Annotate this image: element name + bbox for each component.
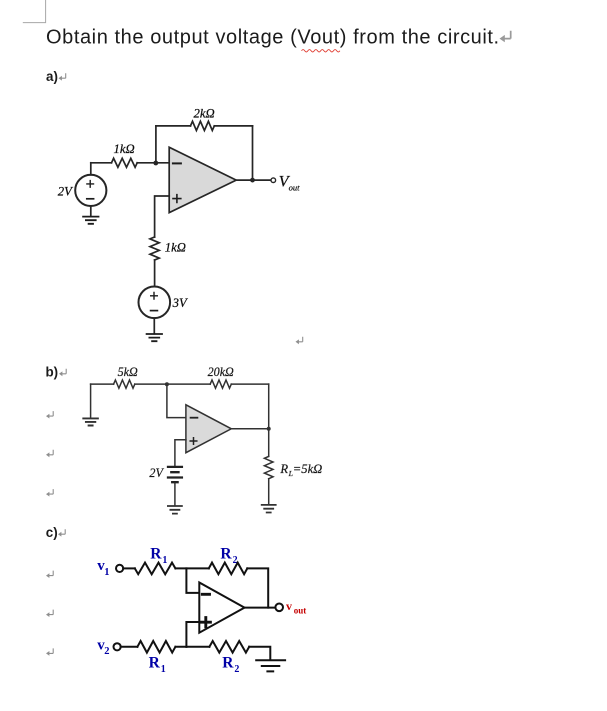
resistor 20k zigzag [210, 380, 231, 388]
svg-text:1: 1 [162, 555, 167, 566]
svg-text:2: 2 [104, 646, 109, 657]
source V2 3V circle [139, 287, 171, 319]
terminal vout open circle [275, 604, 283, 612]
paragraph mark after title [504, 31, 511, 39]
svg-text:2kΩ: 2kΩ [194, 107, 215, 121]
resistor R2 1k vertical zigzag [150, 237, 159, 260]
svg-text:R: R [220, 545, 232, 562]
svg-text:v: v [286, 599, 292, 613]
wire: 3V to ground [153, 318, 155, 334]
op-amp plus sign bold [201, 618, 210, 627]
terminal: output open circle [271, 178, 276, 183]
wire: RL to ground [268, 479, 270, 505]
svg-text:b): b) [46, 364, 59, 379]
wire: output [245, 607, 276, 609]
wire: R1 to R2 [175, 567, 208, 569]
resistor R1 1k zigzag [112, 158, 138, 167]
wire: top rail [91, 383, 269, 385]
wire: R2b to ground stub [249, 647, 270, 660]
svg-text:1kΩ: 1kΩ [114, 142, 135, 156]
op-amp plus sign [190, 438, 197, 445]
wire: noninverting to battery [175, 440, 186, 466]
wire: noninverting down to v2 rail [186, 622, 199, 647]
wire: source to R1 [91, 162, 112, 164]
wire: v1 to R1 [123, 567, 135, 569]
svg-text:2V: 2V [58, 185, 73, 199]
svg-text:20kΩ: 20kΩ [208, 365, 234, 379]
op-amp minus sign [191, 417, 198, 419]
svg-text:c): c) [46, 525, 58, 540]
ground c [256, 660, 285, 671]
svg-text:R: R [149, 654, 161, 671]
op-amp U2 triangle [186, 405, 231, 453]
page margin corner mark [23, 0, 46, 23]
spellcheck squiggle under Vout [302, 50, 340, 52]
terminal v2 open circle [114, 643, 121, 650]
wire: battery to ground [174, 483, 176, 505]
wire: noninverting to R2 top [155, 196, 170, 237]
svg-text:1kΩ: 1kΩ [165, 240, 186, 254]
wire: feedback left vertical [155, 126, 157, 163]
source V1 plus [87, 181, 94, 188]
svg-text:Obtain the output voltage (Vou: Obtain the output voltage (Vout) from th… [46, 27, 500, 49]
wire: feedback top [156, 125, 253, 127]
empty paragraph marks left margin [49, 411, 54, 416]
node: output junction [250, 178, 255, 183]
svg-text:=5kΩ: =5kΩ [293, 462, 323, 476]
source V1 2V circle [75, 175, 106, 206]
op-amp minus sign bold [202, 593, 209, 596]
svg-text:R: R [150, 545, 162, 562]
wire: node to inverting input [186, 568, 199, 593]
resistor 5k zigzag [114, 380, 135, 388]
wire: feedback right vertical [252, 126, 254, 180]
wire: 2V top stub [90, 163, 92, 175]
resistor R1 bottom zigzag [137, 641, 175, 653]
wire: R1 to inverting node [137, 162, 169, 164]
resistor R feedback 2k zigzag [191, 121, 215, 130]
svg-text:R: R [279, 462, 288, 476]
node: input junction [165, 382, 169, 386]
svg-text:out: out [294, 606, 307, 616]
svg-text:out: out [289, 183, 301, 193]
wire: v2 to R1 bottom [121, 646, 138, 648]
wire: output [231, 428, 268, 430]
op-amp minus input sign [173, 162, 181, 164]
resistor R2 top zigzag [209, 563, 248, 575]
svg-text:3V: 3V [172, 296, 188, 310]
ground under 3V [147, 334, 162, 341]
ground under 2V [83, 217, 98, 224]
wire: node down to inverting input [167, 384, 186, 418]
op-amp plus input sign [173, 195, 181, 203]
op-amp U3 triangle [199, 583, 244, 633]
battery 2V plates [168, 467, 182, 482]
wire: R2 to feedback corner down [247, 568, 268, 607]
terminal v1 open circle [116, 565, 123, 572]
wire: 2V to ground stub [90, 206, 92, 216]
svg-text:2V: 2V [149, 466, 164, 480]
resistor R1 top zigzag [135, 563, 176, 575]
svg-text:1: 1 [161, 664, 166, 675]
source V2 minus [151, 310, 158, 312]
op-amp U1 triangle [169, 147, 236, 212]
ground under battery [168, 506, 182, 514]
svg-text:2: 2 [234, 664, 239, 675]
svg-text:5kΩ: 5kΩ [118, 365, 138, 379]
svg-text:1: 1 [104, 567, 109, 578]
source V2 plus [151, 293, 158, 300]
wire: left drop to ground [90, 384, 92, 418]
svg-text:R: R [222, 654, 234, 671]
paragraph mark after circuit a image [298, 337, 303, 342]
node: inverting input junction [153, 161, 158, 166]
svg-text:a): a) [46, 69, 58, 84]
node: output junction [267, 427, 271, 431]
resistor RL vertical zigzag [264, 456, 273, 478]
wire: output [236, 179, 271, 181]
resistor R2 bottom zigzag [209, 641, 249, 653]
ground left [83, 418, 98, 425]
ground under RL [262, 505, 276, 513]
empty paragraph marks left margin c [49, 571, 54, 576]
source V1 minus [87, 198, 94, 200]
wire: R1b to R2b [175, 646, 209, 648]
wire: R2 to 3V source [154, 260, 156, 287]
wire: right rail down [268, 384, 270, 456]
